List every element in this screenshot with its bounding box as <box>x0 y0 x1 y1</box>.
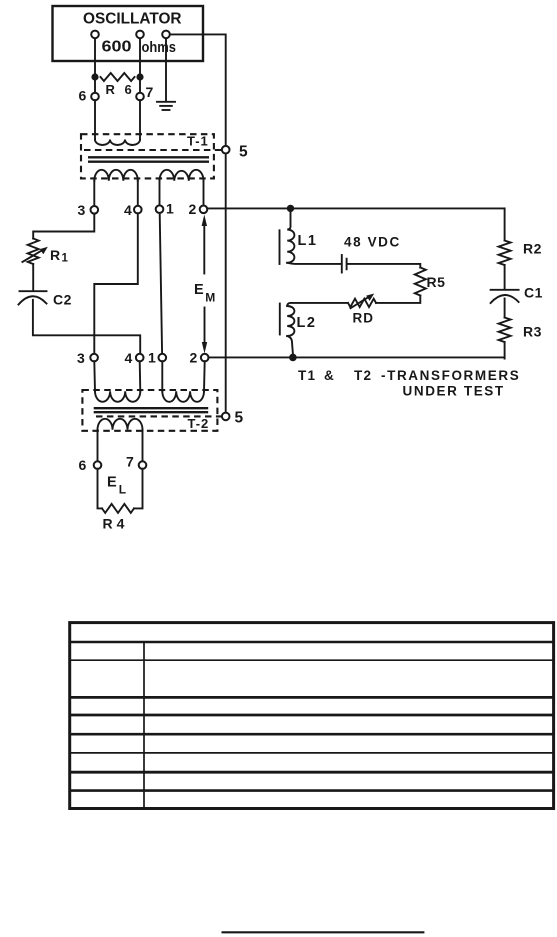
wire oscillator terminal B down to R6 right node <box>139 38 141 93</box>
wire C2 to terminal 4 (bottom) <box>33 300 140 354</box>
battery 48 VDC <box>341 255 343 273</box>
oscillator terminal B <box>136 31 144 39</box>
svg-text:-TRANSFORMERS: -TRANSFORMERS <box>381 368 520 383</box>
terminal 7 (bottom) <box>139 461 147 469</box>
EM measurement arrow (down) <box>204 308 206 347</box>
terminal 1 (bottom) <box>159 354 167 362</box>
svg-text:1: 1 <box>166 201 174 217</box>
svg-text:L: L <box>119 483 126 497</box>
svg-text:R4: R4 <box>103 516 129 532</box>
resistor R3 <box>499 318 511 343</box>
terminal 7 of T-1 <box>136 93 144 101</box>
wire terminal 6 to R4 <box>98 469 103 509</box>
svg-text:C2: C2 <box>53 292 72 308</box>
svg-text:ohms: ohms <box>142 40 177 56</box>
wire terminal 2 (bottom) to right network (bus) <box>208 356 504 358</box>
svg-text:7: 7 <box>146 84 154 100</box>
terminal 3 (bottom) <box>90 354 98 362</box>
wire T-2 pin6 to terminal 6 <box>97 430 99 462</box>
terminal 3 (top) <box>91 206 99 214</box>
terminal 2 (top) <box>200 206 208 214</box>
svg-text:L1: L1 <box>298 233 318 249</box>
EM measurement arrow (up) <box>203 222 205 274</box>
R1 adjustment arrow <box>22 249 43 262</box>
svg-text:5: 5 <box>235 410 244 427</box>
terminal 6 (bottom) <box>94 461 102 469</box>
junction node right of R6 <box>136 73 143 80</box>
svg-text:T-1: T-1 <box>187 134 209 149</box>
wire T-1 pin2 stub <box>203 181 205 206</box>
resistor R4 <box>102 504 134 513</box>
inductor L1 core bar <box>279 230 281 264</box>
svg-text:2: 2 <box>189 201 197 217</box>
svg-text:600: 600 <box>102 39 132 56</box>
wire terminal 4b to T-2 <box>139 361 142 391</box>
transformer T-2 dashed enclosure <box>82 390 217 431</box>
svg-text:C1: C1 <box>524 285 543 301</box>
T-2 winding pins 1-2 <box>162 391 204 402</box>
oscillator box <box>53 6 204 61</box>
oscillator terminal C <box>162 31 170 39</box>
wire terminal 2b to T-2 <box>203 361 206 391</box>
wire terminal 7 to T-1 primary <box>139 100 141 139</box>
svg-text:R3: R3 <box>523 324 542 340</box>
junction node left of R6 <box>91 73 98 80</box>
svg-text:E: E <box>107 475 117 491</box>
resistor R5 <box>415 268 426 296</box>
capacitor C2 <box>20 290 47 292</box>
variable resistor RD <box>348 299 376 307</box>
T-1 primary winding (pins 6-7) <box>95 140 140 146</box>
svg-text:R: R <box>50 247 60 263</box>
svg-text:R 6: R 6 <box>106 82 135 97</box>
inductor L1 <box>287 212 294 263</box>
svg-text:6: 6 <box>79 88 87 104</box>
svg-text:R5: R5 <box>427 274 446 290</box>
svg-text:5: 5 <box>239 144 248 161</box>
svg-text:L2: L2 <box>297 315 317 331</box>
wire R2 to C1 <box>504 265 506 289</box>
T-1 core <box>88 156 209 158</box>
terminal 2 (bottom) <box>201 354 209 362</box>
T-2 core <box>94 407 209 409</box>
wire terminal 1 (top) to terminal 1 (bottom) <box>160 213 162 354</box>
inductor L2 core bar <box>279 304 281 335</box>
wire terminal 3 to R1 <box>33 213 94 238</box>
wire terminal 1b to T-2 <box>161 361 163 391</box>
svg-text:48 VDC: 48 VDC <box>344 235 401 250</box>
transformer T-1 dashed enclosure <box>81 134 214 178</box>
T-1 secondary winding pins 1-2 <box>160 170 204 181</box>
wire C1 to R3 <box>504 299 506 318</box>
T-2 winding pins 3-4 <box>95 391 140 402</box>
terminal 1 (top) <box>156 205 164 213</box>
svg-text:OSCILLATOR: OSCILLATOR <box>83 11 182 28</box>
wire oscillator terminal C to ground <box>165 38 167 101</box>
capacitor C1 <box>491 289 519 291</box>
wire R3 to bottom bus <box>504 342 506 359</box>
data table <box>70 623 554 809</box>
svg-text:3: 3 <box>78 202 86 218</box>
wire terminal 6 to T-1 primary <box>94 100 96 139</box>
resistor R2 <box>499 241 511 266</box>
wire terminal 3b to T-2 <box>93 361 96 391</box>
wire battery to R5 <box>347 264 420 268</box>
wire top to R2 <box>504 208 506 240</box>
svg-text:3: 3 <box>77 350 85 366</box>
wire terminal 2 (top) to right network <box>207 207 505 209</box>
svg-text:4: 4 <box>125 350 133 366</box>
wire RD to L2 <box>287 303 348 306</box>
inductor L2 <box>287 306 294 336</box>
terminal 4 (top) <box>134 206 142 214</box>
T-2 shield (dashed) to node 5 <box>96 415 222 417</box>
svg-text:1: 1 <box>62 253 69 265</box>
svg-text:UNDER TEST: UNDER TEST <box>403 384 505 399</box>
wire T-2 pin7 to terminal 7 <box>142 430 144 462</box>
svg-text:6: 6 <box>79 457 87 473</box>
svg-text:4: 4 <box>124 202 132 218</box>
svg-text:T2: T2 <box>354 368 372 383</box>
terminal 4 (bottom) <box>136 354 144 362</box>
svg-text:2: 2 <box>190 350 198 366</box>
resistor R6 <box>101 73 135 81</box>
T-1 shield (dashed) to node 5 <box>84 149 221 151</box>
svg-text:T-2: T-2 <box>188 416 210 431</box>
T-1 secondary winding pins 3-4 <box>94 170 138 181</box>
wire R5 to RD <box>376 296 420 303</box>
svg-text:&: & <box>324 368 334 383</box>
wire R1 to C2 <box>32 264 34 291</box>
svg-text:M: M <box>205 291 215 305</box>
svg-text:E: E <box>194 282 204 298</box>
wire T-1 pin1 stub <box>159 181 161 206</box>
wire oscillator terminal C right and down to node 5 bus <box>170 34 226 416</box>
T-2 secondary winding pins 6-7 <box>98 419 143 430</box>
ground <box>157 102 175 110</box>
oscillator terminal A <box>91 31 99 39</box>
node 5 (T-1 shield) <box>222 146 230 154</box>
wire terminal 7 to R4 <box>134 469 143 509</box>
junction node top (L1) <box>287 205 294 212</box>
svg-text:R2: R2 <box>523 241 542 257</box>
wire T-1 pin4 stub <box>137 181 139 206</box>
junction node bottom (L2) <box>289 354 297 362</box>
svg-text:RD: RD <box>353 311 375 326</box>
wire terminal 4 (top) to terminal 3 (bottom) <box>94 213 138 354</box>
svg-text:7: 7 <box>126 454 134 470</box>
node 5 (T-2 shield) <box>222 413 230 421</box>
bottom rule <box>222 931 425 933</box>
wire T-1 pin3 stub <box>93 181 95 206</box>
wire oscillator terminal A down to R6 left node <box>94 38 96 93</box>
terminal 6 of T-1 <box>91 93 99 101</box>
variable resistor R1 <box>28 239 39 265</box>
RD adjustment arrow <box>351 296 370 308</box>
svg-text:1: 1 <box>148 350 156 366</box>
svg-text:T1: T1 <box>298 368 316 383</box>
